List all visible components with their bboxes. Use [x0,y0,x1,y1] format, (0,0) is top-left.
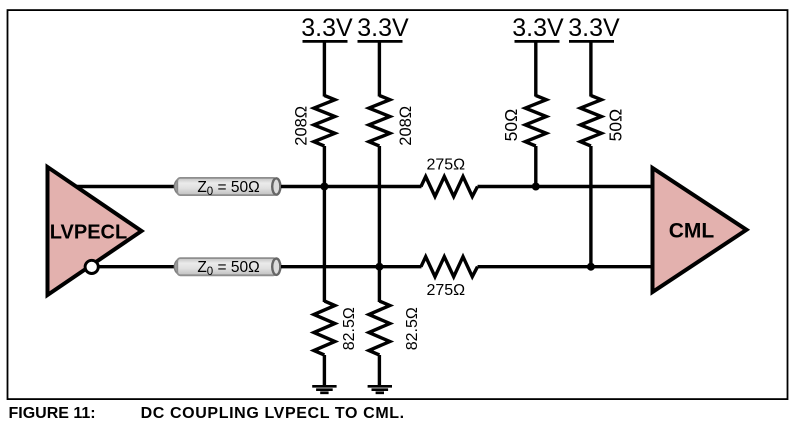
wire: OUT- node down to resistor R6 [378,267,381,302]
transmission line T1 Z0=50ohm (top) [174,178,280,198]
resistor R2 208 ohm (pull-up, OUT- net) [369,96,390,147]
resistor R7 50 ohm (CML pull-up, IN+ net) [525,96,546,147]
wire: R1 bottom to OUT+ node [323,146,326,188]
svg-text:LVPECL: LVPECL [50,222,127,244]
wire: R8 bottom through top trace (no connection) to IN- node [589,146,592,268]
wire: 3.3V rail 4 to resistor R8 [589,41,592,96]
svg-text:CML: CML [669,219,715,242]
svg-text:82.5Ω: 82.5Ω [341,307,358,350]
svg-text:275Ω: 275Ω [426,157,465,174]
LVPECL driver U1 [48,167,142,295]
svg-text:50Ω: 50Ω [606,109,626,142]
wire: 3.3V rail 1 to resistor R1 [323,41,326,96]
wire: LVPECL OUT+ to transmission line T1 [76,185,176,188]
ground symbol 1 [312,386,336,393]
resistor R1 208 ohm (pull-up, OUT+ net) [314,96,335,147]
CML receiver U2 [653,168,747,292]
svg-text:DC COUPLING LVPECL TO CML.: DC COUPLING LVPECL TO CML. [141,405,405,422]
svg-text:208Ω: 208Ω [292,106,310,146]
junction: R1 / top trace (OUT+) [320,183,328,191]
resistor R6 82.5 ohm (pull-down) [369,301,390,355]
transmission line T2 Z0=50ohm (bottom) [174,258,280,278]
resistor R5 82.5 ohm (pull-down) [314,301,335,355]
wire: R7 bottom to IN+ node [534,146,537,188]
wire: T2 to resistor R4 [281,265,422,268]
power rail 3.3V #3 (bar symbol) [515,40,560,43]
wire: R3 to CML IN+ [478,185,653,188]
svg-text:50Ω: 50Ω [501,109,521,142]
power rail 3.3V #1 (bar symbol) [303,40,348,43]
inversion bubble on LVPECL inverted output [85,260,98,273]
wire: 3.3V rail 2 to resistor R2 [378,41,381,96]
wire: R2 bottom through top trace (no connection) to OUT- node [378,146,381,268]
junction: R8 / bottom trace (IN-) [587,263,595,271]
svg-text:FIGURE 11:: FIGURE 11: [9,405,96,422]
resistor R4 275 ohm (series, bottom trace) [421,257,478,277]
svg-text:3.3V: 3.3V [301,14,353,42]
junction: R7 / top trace (IN+) [532,183,540,191]
resistor R3 275 ohm (series, top trace) [421,177,478,197]
wire: R6 to ground 2 [378,355,381,386]
power rail 3.3V #4 (bar symbol) [569,40,614,43]
svg-text:208Ω: 208Ω [397,106,415,146]
wire: T1 to resistor R3 [281,185,422,188]
svg-text:275Ω: 275Ω [426,282,465,299]
power rail 3.3V #2 (bar symbol) [358,40,403,43]
resistor R8 50 ohm (CML pull-up, IN- net) [580,96,601,147]
wire: 3.3V rail 3 to resistor R7 [534,41,537,96]
svg-text:3.3V: 3.3V [568,14,620,42]
svg-text:3.3V: 3.3V [357,14,409,42]
junction: R2 / bottom trace (OUT-) [375,263,383,271]
ground symbol 2 [368,386,392,393]
svg-text:Z0 = 50Ω: Z0 = 50Ω [197,259,259,278]
wire: bubble to transmission line T2 [98,265,176,268]
svg-text:3.3V: 3.3V [512,14,564,42]
svg-text:Z0 = 50Ω: Z0 = 50Ω [197,179,259,198]
wire: R5 to ground 1 [323,355,326,386]
wire: R4 to CML IN- [478,265,653,268]
svg-text:82.5Ω: 82.5Ω [404,307,421,350]
wire: OUT+ node down to resistor R5 (crosses OUT- trace, no connection) [323,187,326,303]
